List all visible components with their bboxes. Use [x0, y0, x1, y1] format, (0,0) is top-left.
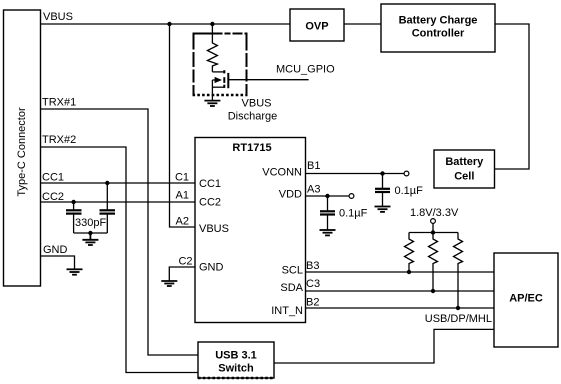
capacitor C3 bottom lead — [327, 215, 329, 230]
svg-text:A1: A1 — [176, 190, 189, 202]
svg-text:Type-C Connector: Type-C Connector — [16, 107, 28, 197]
svg-text:CC2: CC2 — [199, 197, 221, 209]
svg-text:0.1µF: 0.1µF — [395, 185, 424, 197]
wire controller to battery cell — [495, 24, 530, 169]
wire USB switch to AP/EC — [274, 329, 494, 363]
svg-text:330pF: 330pF — [75, 217, 106, 229]
ground discharge — [204, 101, 220, 106]
Battery Charge Controller box U3 — [381, 4, 495, 52]
AP/EC box U4 — [494, 253, 558, 347]
transistor Q1 drain lead — [212, 71, 224, 73]
junction VCONN cap — [380, 171, 384, 175]
svg-text:A2: A2 — [176, 216, 189, 228]
wire C2 GND pin — [169, 267, 195, 281]
terminal VDD — [349, 194, 354, 199]
ground caps 330pF — [82, 233, 98, 245]
svg-text:Battery Charge: Battery Charge — [399, 15, 478, 27]
capacitor C4 lead — [382, 174, 384, 189]
ground C2 — [161, 281, 177, 286]
wire CC2 connector to RT1715 — [41, 201, 196, 203]
wire TRX#2 to USB switch — [41, 147, 199, 373]
terminal VCONN — [404, 171, 409, 176]
wire cap commons — [74, 232, 108, 234]
junction R4 INT_N — [456, 306, 460, 310]
svg-text:CC1: CC1 — [42, 172, 64, 184]
svg-text:TRX#1: TRX#1 — [42, 97, 76, 109]
wire VCONN — [306, 173, 405, 175]
svg-text:AP/EC: AP/EC — [509, 293, 543, 305]
svg-text:A3: A3 — [307, 184, 320, 196]
resistor R1 discharge — [207, 41, 217, 72]
wire supply rail — [432, 223, 434, 232]
Battery Cell box BT1 — [434, 150, 495, 188]
capacitor C1a bottom lead — [106, 214, 108, 233]
capacitor C3 lead — [327, 196, 329, 211]
transistor Q1 channel segments — [223, 70, 225, 88]
capacitor C1a lead (CC1) — [106, 183, 108, 210]
transistor Q1 gate bar — [227, 73, 229, 88]
svg-text:OVP: OVP — [305, 21, 328, 33]
capacitor C4 bottom lead — [382, 192, 384, 206]
svg-text:VBUS: VBUS — [242, 98, 272, 110]
wire VBUS down to A2 pin — [170, 24, 196, 227]
ground C4 — [375, 207, 391, 212]
transistor Q1 source lead — [212, 86, 224, 88]
wire VBUS connector to OVP — [41, 23, 291, 25]
svg-text:USB 3.1: USB 3.1 — [215, 350, 257, 362]
svg-text:GND: GND — [199, 262, 224, 274]
junction VDD cap — [325, 194, 329, 198]
junction VBUS to discharge branch — [210, 22, 214, 26]
wire INT_N to AP/EC — [306, 307, 495, 309]
OVP box U2 — [290, 9, 344, 41]
svg-text:Battery: Battery — [445, 156, 484, 168]
svg-text:C1: C1 — [175, 172, 189, 184]
svg-text:0.1µF: 0.1µF — [339, 208, 368, 220]
wire source to ground — [211, 80, 213, 101]
svg-text:MCU_GPIO: MCU_GPIO — [276, 64, 335, 76]
svg-text:VCONN: VCONN — [262, 167, 302, 179]
svg-text:RT1715: RT1715 — [232, 142, 271, 154]
svg-text:Controller: Controller — [412, 28, 465, 40]
svg-text:B2: B2 — [306, 297, 319, 309]
capacitor C2a lead (CC2) — [73, 202, 75, 210]
capacitor C4 plates — [375, 189, 390, 192]
transistor Q1 body arrow — [212, 79, 215, 81]
svg-text:Cell: Cell — [454, 171, 474, 183]
svg-text:Discharge: Discharge — [228, 111, 278, 123]
capacitor C3 plates — [320, 211, 335, 214]
svg-text:B1: B1 — [307, 160, 320, 172]
svg-text:TRX#2: TRX#2 — [42, 134, 76, 146]
junction CC2 to cap — [71, 200, 75, 204]
svg-text:SDA: SDA — [280, 282, 303, 294]
wire VDD — [306, 195, 350, 197]
svg-text:VBUS: VBUS — [199, 223, 229, 235]
ground connector — [67, 269, 83, 274]
resistor R4 pullup INT_N — [454, 233, 463, 309]
junction CC1 to cap — [105, 181, 109, 185]
svg-text:INT_N: INT_N — [271, 305, 303, 317]
svg-text:C3: C3 — [306, 278, 320, 290]
wire SDA to AP/EC — [306, 290, 495, 292]
capacitor C1a plates 330pF — [100, 210, 116, 213]
svg-text:Switch: Switch — [218, 363, 254, 375]
capacitor C2a bottom lead — [73, 214, 75, 233]
resistor R2 pullup SCL — [405, 233, 414, 273]
junction caps to ground — [88, 231, 92, 235]
junction rail — [431, 230, 435, 234]
wire TRX#1 to USB switch — [41, 109, 199, 355]
wire CC1 connector to RT1715 — [41, 182, 196, 184]
ground C3 — [320, 230, 336, 235]
junction R3 SDA — [431, 289, 435, 293]
wire VBUS down into discharge box — [211, 24, 213, 41]
svg-text:CC2: CC2 — [42, 191, 64, 203]
svg-text:USB/DP/MHL: USB/DP/MHL — [425, 313, 492, 325]
svg-text:VBUS: VBUS — [43, 11, 73, 23]
junction R2 SCL — [407, 270, 411, 274]
junction VBUS to RT1715 branch — [167, 22, 171, 26]
connector J1 Type-C box — [4, 10, 41, 286]
svg-text:1.8V/3.3V: 1.8V/3.3V — [410, 207, 459, 219]
capacitor C2a plates 330pF — [66, 210, 82, 213]
svg-text:VDD: VDD — [279, 189, 302, 201]
svg-text:C2: C2 — [178, 256, 192, 268]
terminal 1.8V/3.3V — [431, 219, 436, 224]
svg-text:GND: GND — [43, 244, 68, 256]
resistor R3 pullup SDA — [429, 233, 438, 292]
svg-text:B3: B3 — [306, 260, 319, 272]
transistor Q1 gate lead / MCU_GPIO wire — [228, 79, 308, 81]
VBUS discharge enclosure — [193, 33, 248, 97]
svg-text:SCL: SCL — [282, 265, 303, 277]
wire SCL to AP/EC — [306, 271, 495, 273]
wire OVP to controller — [344, 23, 381, 25]
USB 3.1 Switch box U5 — [198, 342, 274, 378]
svg-text:CC1: CC1 — [199, 178, 221, 190]
RT1715 U1 box — [195, 138, 306, 323]
wire GND connector — [41, 256, 75, 269]
